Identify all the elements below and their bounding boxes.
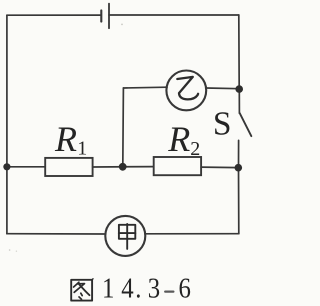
wire: bottom segment left of meter bbox=[7, 233, 106, 235]
glyph 乙 in voltmeter bbox=[177, 77, 198, 100]
svg-text:4: 4 bbox=[121, 272, 133, 304]
caption glyph 图: outer box bbox=[71, 280, 92, 301]
resistor R1 box bbox=[45, 158, 92, 176]
wire: R1 to center node bbox=[93, 166, 154, 168]
caption glyph 图: inner 冬 right-falling stroke bbox=[79, 285, 89, 296]
caption glyph 图: inner 冬 short left-falling stroke bbox=[74, 282, 79, 287]
wire: right rail upper bbox=[238, 15, 240, 89]
caption glyph 图: box top-right serif tick bbox=[91, 279, 94, 281]
wire: top segment left of battery bbox=[7, 14, 101, 16]
glyph 甲 in ammeter: outer box bbox=[119, 225, 135, 239]
switch S: lower contact lead bbox=[238, 140, 240, 167]
svg-text:1: 1 bbox=[102, 272, 114, 304]
wire: bottom segment right of meter bbox=[145, 233, 239, 235]
paper speck bbox=[121, 24, 123, 26]
wire: top segment right of battery bbox=[109, 14, 239, 16]
svg-text:S: S bbox=[213, 105, 232, 142]
svg-text:6: 6 bbox=[179, 272, 191, 304]
battery B short plate (negative) bbox=[100, 10, 102, 21]
switch S: open blade bbox=[240, 113, 252, 136]
junction dot: node left middle bbox=[3, 163, 10, 170]
resistor R2 box bbox=[154, 157, 201, 175]
caption glyph 图: inner 冬 upper dot bbox=[81, 293, 82, 295]
svg-text:R: R bbox=[167, 119, 190, 159]
svg-text:R: R bbox=[54, 119, 77, 159]
junction dot: center node between R1 and R2 bbox=[119, 163, 127, 171]
glyph 甲: center vertical stroke bbox=[126, 224, 128, 249]
caption glyph 图: inner 冬 lower dot bbox=[79, 297, 82, 299]
svg-text:.: . bbox=[135, 272, 141, 304]
wire: right rail lower bbox=[238, 168, 240, 234]
svg-text:2: 2 bbox=[190, 138, 200, 160]
junction dot: node at switch top / meter branch bbox=[235, 85, 243, 93]
wire: branch to voltmeter 乙 bbox=[123, 86, 167, 89]
wire: center node riser to meter branch bbox=[122, 88, 125, 167]
ammeter (甲) circle bbox=[105, 216, 145, 256]
svg-text:3: 3 bbox=[148, 272, 160, 304]
wire: R2 to right rail bbox=[201, 166, 238, 169]
voltmeter (乙) circle bbox=[166, 71, 206, 111]
caption glyph 图: inner 冬 horizontal-fall stroke bbox=[74, 284, 84, 293]
switch S: upper fixed lead bbox=[238, 89, 240, 113]
battery B long plate (positive) bbox=[108, 4, 110, 29]
glyph 甲: middle horizontal bbox=[119, 232, 135, 234]
wire: left rail bbox=[6, 15, 8, 234]
caption text: hyphen bbox=[165, 291, 173, 293]
wire: middle row, left rail to R1 bbox=[7, 166, 45, 168]
paper speck bbox=[16, 251, 17, 252]
paper speck bbox=[9, 249, 11, 251]
svg-text:1: 1 bbox=[77, 137, 87, 159]
junction dot: node right middle bbox=[235, 164, 243, 172]
wire: voltmeter 乙 to right rail bbox=[206, 87, 239, 90]
